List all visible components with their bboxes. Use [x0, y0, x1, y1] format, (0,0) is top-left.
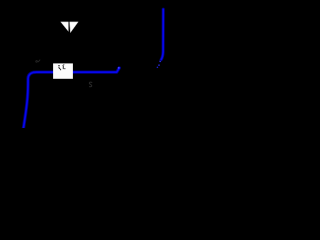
wire: left branch rising from bottom edge to flat node level (halo) [23, 68, 119, 129]
wire: right branch faint dotted bend (junction dots) [157, 67, 159, 69]
resistor R (box body, wire passes behind) [53, 63, 73, 78]
wire: left branch core [23, 68, 119, 129]
wire: right branch vertical core [161, 9, 163, 59]
value label "27" inside resistor box [58, 65, 65, 70]
faint node label "Ur" left of resistor [36, 60, 40, 62]
marker triangle right half [70, 22, 79, 33]
marker triangle left half (cursor above resistor) [61, 22, 69, 32]
wire: right branch vertical (halo) [161, 9, 163, 59]
node dot at top of jog [118, 67, 120, 69]
faint label "s" below wire right of resistor [89, 82, 91, 87]
